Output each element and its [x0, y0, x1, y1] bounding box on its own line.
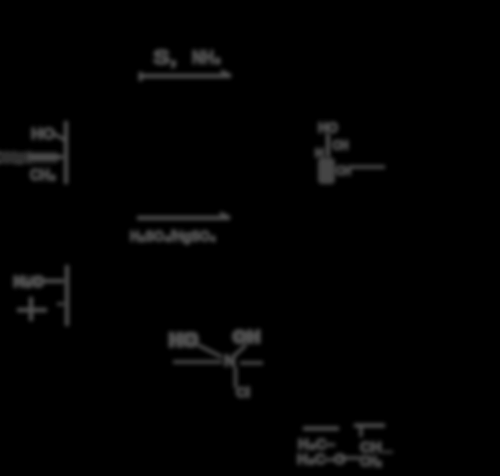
svg-text:CH: CH — [336, 163, 351, 178]
left structure 2: vertical backbone bond — [65, 265, 69, 326]
top reaction arrow left tick — [139, 72, 143, 81]
right structure 1: bond going right — [350, 165, 385, 168]
right structure 1: vertical bond — [326, 134, 330, 157]
left structure 2: tick on backbone — [57, 303, 64, 306]
svg-text:CH₃: CH₃ — [30, 167, 56, 184]
bottom-center structure: bond OH to N — [234, 345, 246, 356]
svg-text:H₃C–O: H₃C–O — [297, 451, 346, 468]
left structure 2: bond to backbone — [42, 279, 64, 283]
bottom-center structure: bond down — [234, 367, 237, 388]
top reaction arrow head barb — [221, 71, 231, 76]
svg-text:HO: HO — [31, 126, 55, 143]
svg-text:N: N — [224, 353, 236, 370]
bottom-center structure: bond HO to N — [198, 345, 222, 357]
svg-text:Cl: Cl — [236, 384, 250, 400]
top reaction arrow shaft — [139, 74, 231, 78]
bottom-right structure: connector bond — [340, 456, 360, 459]
left structure 1: vertical backbone bond — [64, 121, 68, 184]
bottom-center structure: bond right — [240, 361, 263, 364]
left structure 1: bond HO to backbone — [54, 134, 65, 140]
left structure 1: bond H3C to backbone — [28, 155, 63, 159]
middle reaction arrow shaft — [137, 216, 230, 220]
bottom-right structure: bond CH going right — [382, 451, 393, 454]
left structure 1: row2 underlay — [0, 152, 58, 163]
svg-text:HO: HO — [168, 329, 199, 352]
bottom-right structure: overline right — [354, 424, 385, 428]
right structure 1: C atom block — [318, 158, 335, 184]
bottom-center structure: HO label underlay — [170, 332, 198, 347]
svg-text:S,: S, — [153, 47, 177, 69]
bottom-center structure: OH label underlay — [234, 331, 259, 344]
svg-text:H₃C: H₃C — [13, 274, 44, 291]
bottom-center structure: bond left — [173, 360, 222, 363]
left structure 2: H3C row underlay — [14, 276, 44, 286]
middle reaction arrow head barb — [220, 213, 230, 218]
svg-text:CH₂: CH₂ — [360, 453, 382, 470]
svg-text:H₂SO₄/HgSO₄: H₂SO₄/HgSO₄ — [130, 228, 216, 245]
svg-text:HO: HO — [318, 120, 338, 137]
svg-text:NH₃: NH₃ — [192, 48, 221, 68]
left structure 2: cross bond vertical — [29, 297, 33, 321]
left structure 2: cross bond horizontal — [17, 308, 47, 312]
svg-text:CH: CH — [333, 139, 349, 153]
bottom-right structure: bond overline to CH — [359, 427, 362, 437]
svg-text:OH: OH — [232, 327, 261, 347]
bottom-right structure: overline left — [303, 427, 339, 431]
svg-text:H: H — [315, 146, 324, 160]
